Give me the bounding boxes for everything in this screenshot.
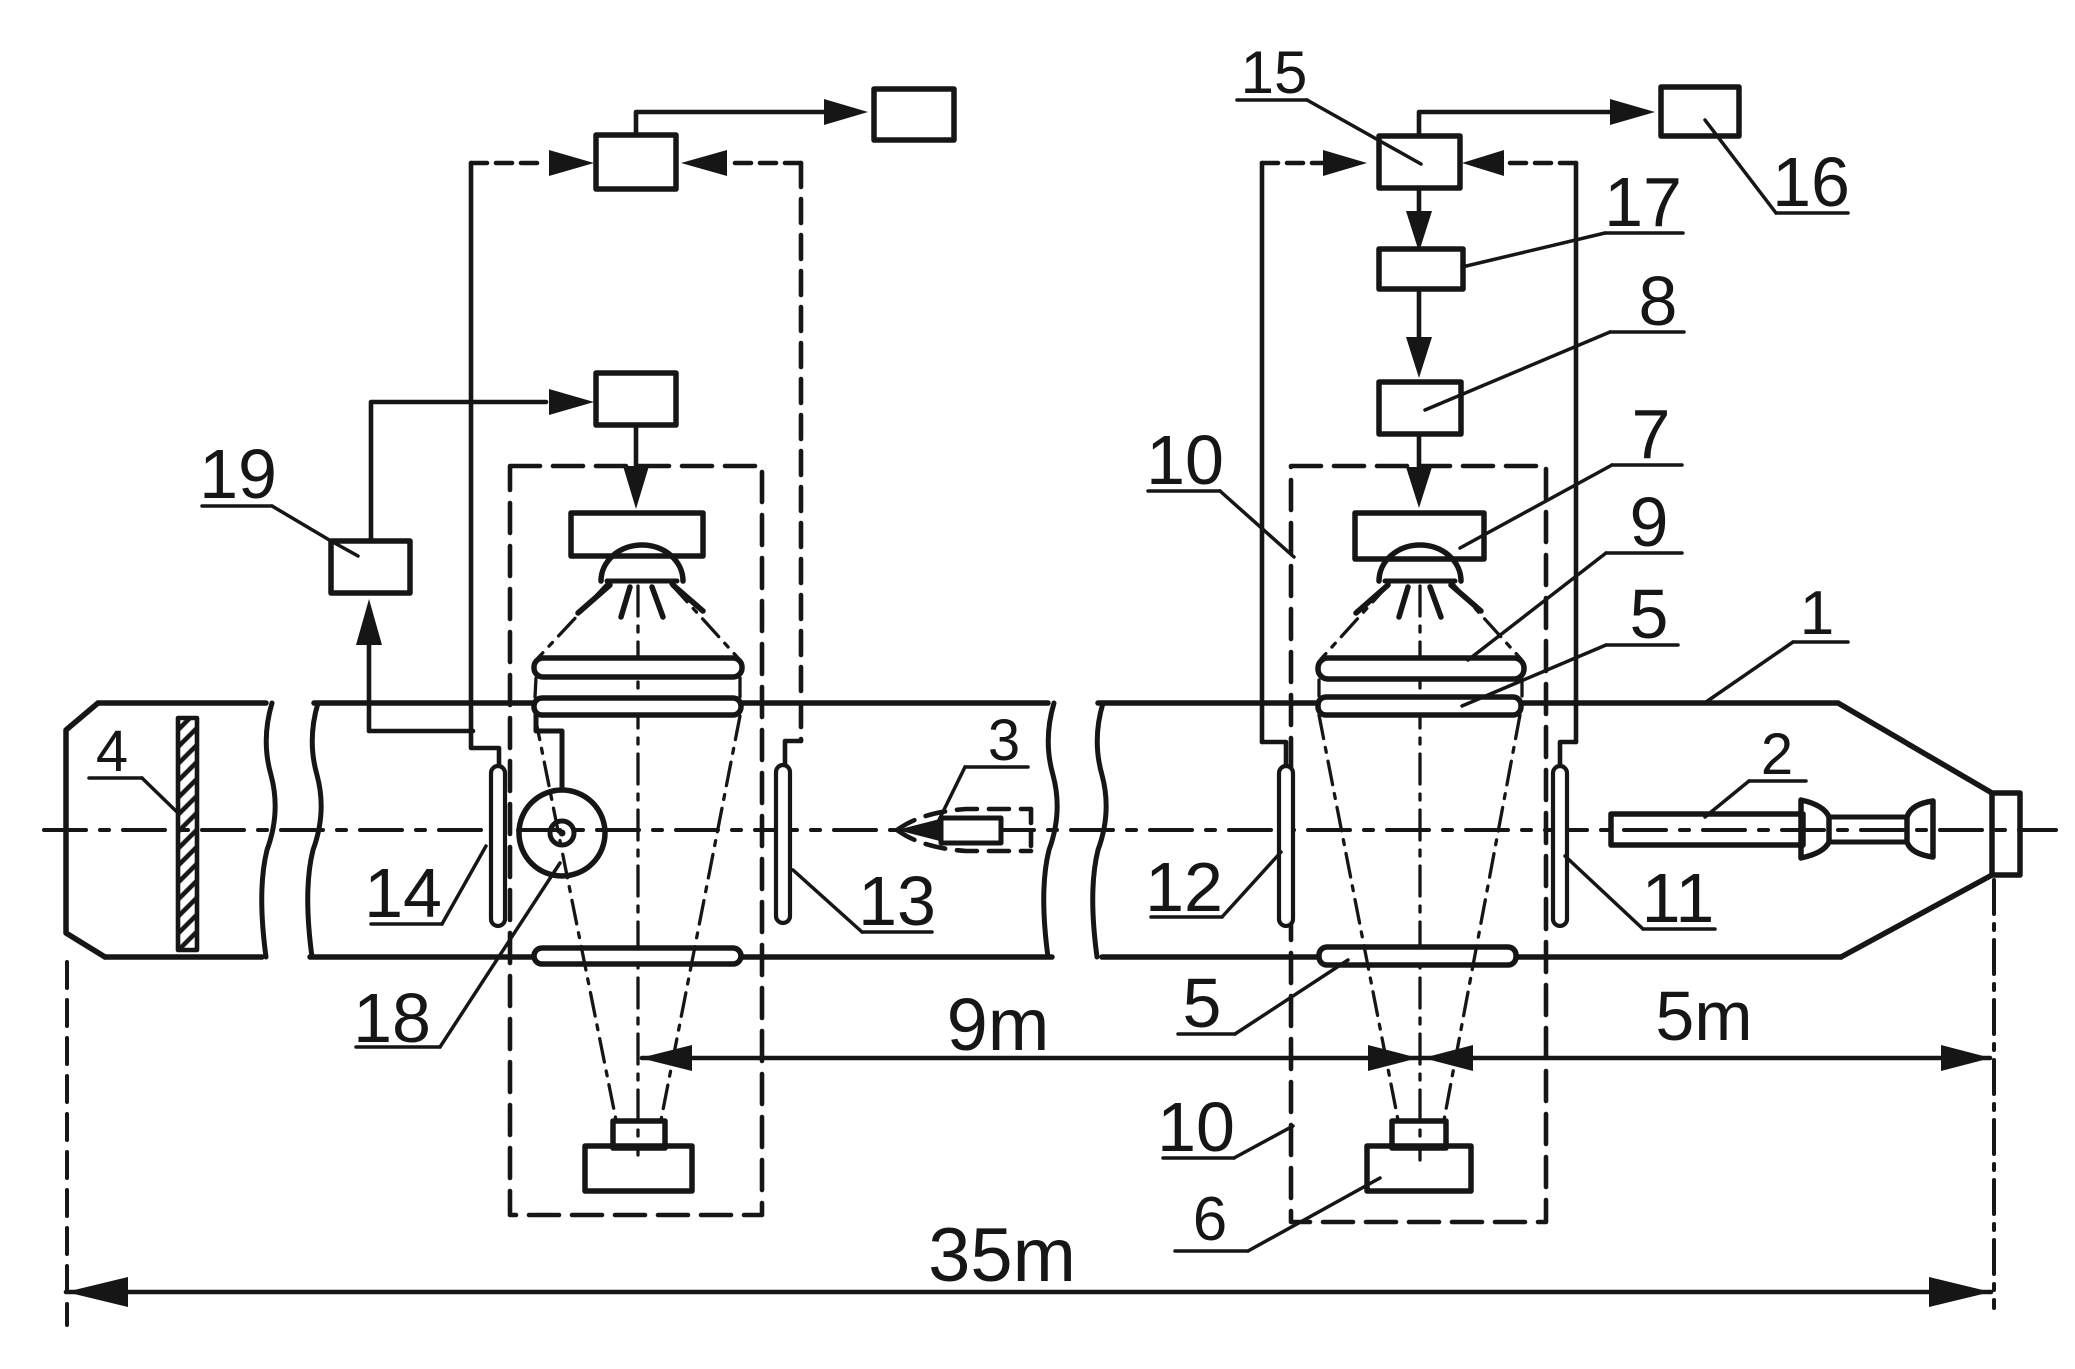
wire counter to recorder — [636, 112, 851, 135]
counter box (left station top) — [596, 135, 676, 189]
svg-text:3: 3 — [988, 708, 1020, 773]
trigger box 19 — [331, 541, 410, 593]
bracket to screen 14 — [471, 731, 499, 766]
leader 16 — [1776, 211, 1848, 215]
right end plug — [1992, 793, 2020, 875]
gun muzzle 2 bell 2 — [1907, 801, 1933, 857]
arrow 17 to 8 — [1417, 289, 1422, 347]
tube 1 right tapered end — [1838, 703, 1992, 793]
extension line right datum — [1992, 880, 1996, 1308]
window plate 5 bottom (right station) — [1319, 947, 1516, 965]
svg-text:19: 19 — [199, 435, 277, 513]
svg-text:5: 5 — [1183, 964, 1222, 1042]
screen 12 — [1279, 766, 1293, 926]
arrow flash supply to lamp — [634, 425, 639, 478]
station 2 vertical centerline — [1418, 586, 1421, 1160]
svg-text:17: 17 — [1604, 163, 1682, 241]
lamp rays (left) — [578, 585, 610, 613]
bracket to screen 11 — [1560, 742, 1576, 766]
collar shelf — [370, 729, 473, 734]
svg-text:15: 15 — [1241, 39, 1308, 106]
detector body 6 — [1367, 1146, 1471, 1191]
bracket of wheel 18 — [536, 715, 562, 790]
window plate 5 top (right station) — [1318, 697, 1521, 715]
recorder box 16 — [1661, 87, 1739, 136]
svg-text:16: 16 — [1772, 143, 1850, 221]
svg-text:10: 10 — [1157, 1088, 1235, 1166]
loop wire right (to screen 13, dashed) — [799, 163, 804, 741]
detector lens barrel (left) — [613, 1121, 665, 1148]
wheel 18 hub — [550, 821, 574, 845]
leader 8 — [1610, 330, 1684, 334]
svg-text:12: 12 — [1145, 848, 1223, 926]
svg-text:5: 5 — [1630, 575, 1669, 653]
leader 19 — [202, 504, 272, 508]
flash supply box (left station mid) — [596, 373, 676, 425]
svg-text:9: 9 — [1630, 483, 1669, 561]
svg-text:18: 18 — [353, 979, 431, 1057]
condenser lens (left station) — [534, 658, 742, 677]
tube 1 top wall — [98, 700, 266, 706]
loop wire right (to screen 11) — [1574, 163, 1579, 742]
leader 5 bottom — [1178, 1032, 1235, 1036]
extension line left datum — [65, 962, 69, 1325]
flash lamp dome (left) — [601, 545, 683, 581]
leader 11 — [1643, 927, 1715, 931]
leader 5 upper — [1606, 643, 1678, 647]
wire box 19 to flash supply — [371, 402, 546, 541]
leader 12 — [1151, 915, 1222, 919]
gun muzzle 2 bell 1 — [1801, 800, 1829, 858]
delay box 17 — [1379, 249, 1463, 289]
screen 13 — [776, 765, 790, 923]
lamp rays (right) — [1356, 585, 1388, 613]
flash lamp housing (left) — [571, 513, 703, 556]
leader 14 — [371, 922, 442, 926]
axis centerline of tube 1 — [44, 828, 2056, 832]
bracket to screen 13 — [785, 741, 801, 765]
projectile 3 core — [901, 819, 944, 841]
screen 14 — [491, 766, 505, 926]
bracket to screen 12 — [1262, 742, 1286, 766]
wheel 18 outer — [519, 790, 605, 876]
leader 2 — [1749, 779, 1806, 783]
time counter box 15 — [1379, 136, 1460, 188]
svg-text:4: 4 — [96, 719, 128, 784]
svg-text:35m: 35m — [928, 1213, 1076, 1298]
condenser lens 9 — [1318, 658, 1524, 679]
leader 13 — [862, 930, 932, 934]
svg-text:9m: 9m — [947, 983, 1050, 1066]
dimension line 35m — [66, 1290, 1991, 1295]
leader 4 — [89, 776, 142, 780]
window plate 5 bottom (left station) — [534, 948, 741, 964]
arrow 8 to lamp 7 — [1417, 434, 1422, 477]
detector body (left) — [585, 1146, 692, 1191]
leader 10 upper — [1148, 489, 1220, 493]
screen 11 — [1553, 766, 1567, 926]
dimension line 9m / 5m — [642, 1056, 1990, 1061]
window plate 5 top (left station) — [534, 698, 741, 715]
station 1 vertical centerline — [636, 586, 639, 1155]
light cone rays (left station) — [535, 584, 740, 1120]
projectile 3 dashed contour — [897, 809, 1031, 830]
svg-text:2: 2 — [1761, 722, 1793, 787]
tube 1 left end cap — [66, 703, 105, 957]
leader 17 — [1605, 231, 1683, 235]
break symbol left pair — [262, 703, 275, 957]
gun muzzle 2 rod — [1829, 815, 1907, 820]
break symbol middle pair — [1044, 703, 1057, 957]
flash lamp housing 7 — [1355, 513, 1484, 559]
svg-text:8: 8 — [1639, 262, 1678, 340]
tube 1 bottom wall — [105, 954, 262, 960]
arrow 15 to 17 — [1417, 188, 1422, 221]
leader 6 — [1175, 1249, 1248, 1253]
recorder box 16-left — [874, 89, 954, 140]
svg-text:1: 1 — [1800, 579, 1834, 648]
leader 9 — [1606, 551, 1682, 555]
svg-text:10: 10 — [1146, 421, 1224, 499]
loop wire left (to screen 14) — [469, 163, 474, 731]
detector lens barrel 6 — [1392, 1121, 1446, 1148]
svg-text:7: 7 — [1632, 395, 1671, 473]
leader 3 — [965, 765, 1028, 769]
baffle plate 4 (hatched) — [178, 718, 197, 950]
station 10 enclosure dashed box — [1291, 466, 1546, 1222]
loop wire left (to screen 12) — [1260, 163, 1265, 742]
wire 15 to 16 — [1419, 112, 1637, 136]
svg-text:13: 13 — [858, 862, 936, 940]
flash supply box 8 — [1379, 382, 1461, 434]
leader 7 — [1612, 463, 1682, 467]
wire tube to box 19 with arrow — [367, 640, 372, 731]
gun muzzle 2 barrel — [1611, 814, 1803, 845]
leader 10 bottom — [1163, 1156, 1234, 1160]
light cone rays (right station) — [1319, 584, 1522, 1120]
svg-text:11: 11 — [1642, 859, 1715, 937]
leader 18 — [356, 1045, 440, 1049]
leader 1 — [1793, 640, 1848, 644]
svg-text:5m: 5m — [1655, 977, 1752, 1055]
station 1 enclosure dashed box — [510, 466, 762, 1215]
svg-text:6: 6 — [1193, 1185, 1227, 1254]
flash lamp dome (right) — [1379, 545, 1461, 581]
leader 15 — [1237, 98, 1307, 102]
svg-text:14: 14 — [364, 854, 442, 932]
